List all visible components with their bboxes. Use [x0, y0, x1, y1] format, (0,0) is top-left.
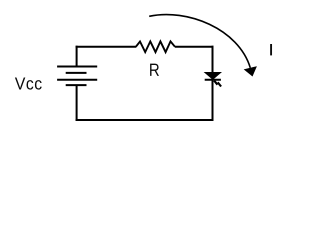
battery plate: short negative plate (bottom) [66, 84, 87, 86]
resistor R [136, 41, 175, 52]
label Vcc [15, 77, 42, 89]
battery plate: long positive plate [57, 79, 97, 81]
arrowhead [244, 66, 257, 76]
current direction arrow (curved) [149, 15, 257, 77]
battery plate: short negative plate [66, 72, 87, 74]
wire: battery positive terminal up to top rail [76, 46, 78, 67]
label R [150, 64, 159, 76]
wire: top rail left segment [76, 46, 137, 48]
wire: top rail right segment [175, 46, 214, 48]
battery plate: long positive plate (top) [57, 66, 97, 68]
label I (current) [270, 44, 272, 55]
LED cathode bar [205, 79, 221, 81]
LED emission arrow 2 [218, 82, 221, 86]
wire: battery negative terminal down to bottom rail [76, 85, 78, 121]
LED emission arrow 1 [214, 81, 217, 85]
LED D1 [205, 72, 221, 86]
battery Vcc [57, 67, 97, 86]
wire: bottom rail [76, 119, 214, 121]
arrow shaft [149, 15, 250, 68]
LED triangle (anode) [205, 72, 221, 79]
wire: LED cathode down to bottom rail [212, 79, 214, 121]
wire: right branch from top rail down to LED anode [212, 46, 214, 74]
